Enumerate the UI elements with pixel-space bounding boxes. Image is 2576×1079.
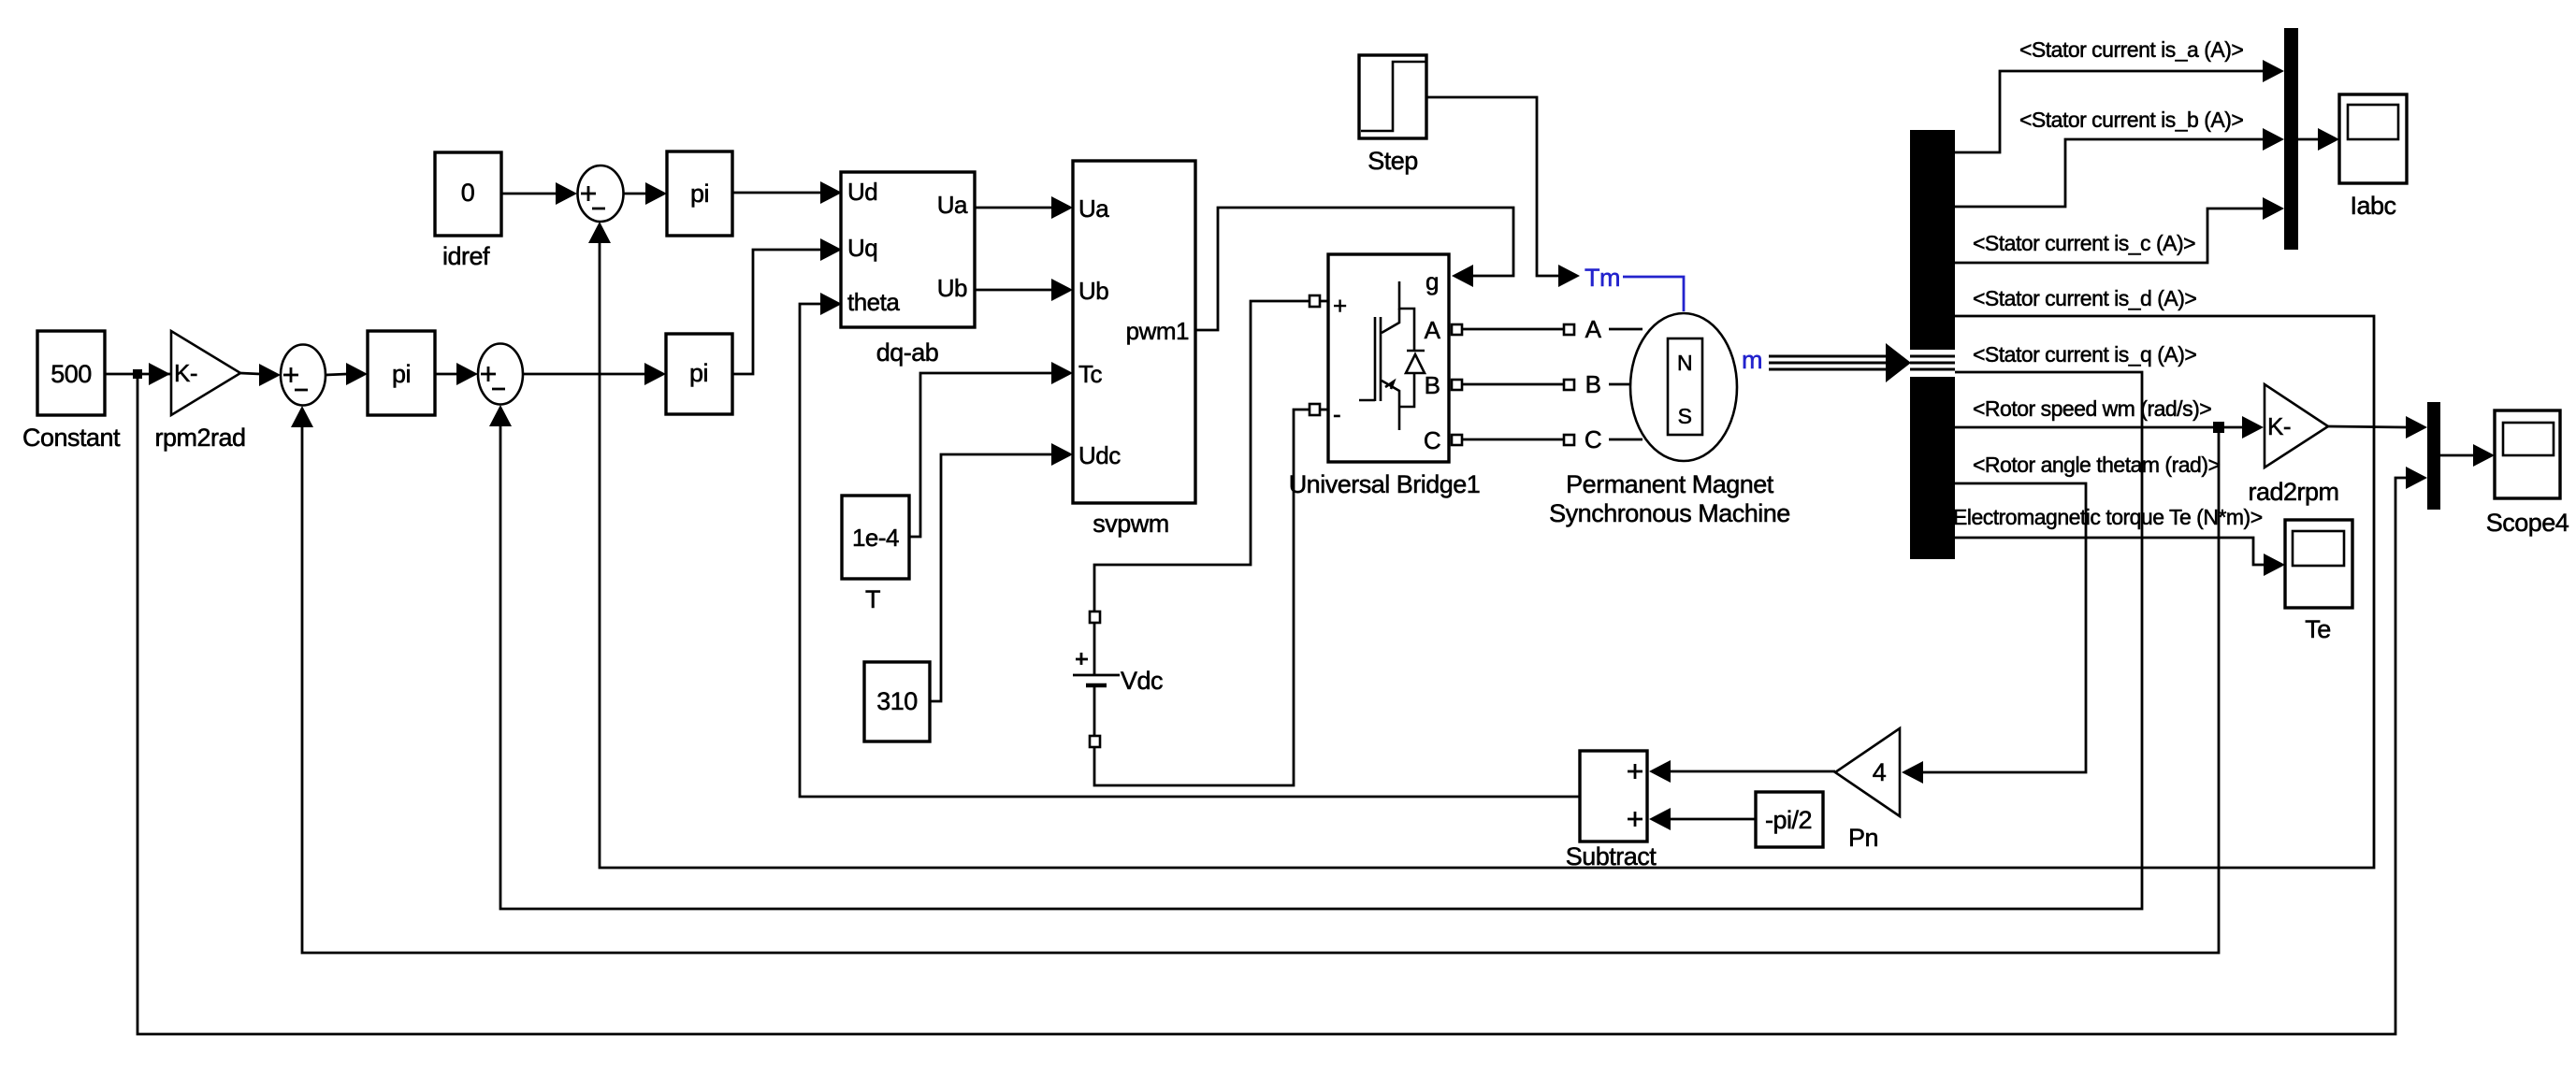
pi controller 1 (speed) [368, 331, 435, 415]
bridge plus input port [1310, 295, 1328, 307]
mux Iabc bar [2284, 28, 2298, 250]
svg-text:Step: Step [1368, 147, 1418, 175]
scope Scope4 [2486, 410, 2569, 537]
wire rad2rpm to scope4 mux [2328, 416, 2427, 439]
svg-text:Vdc: Vdc [1121, 667, 1163, 695]
svg-text:1e-4: 1e-4 [852, 524, 899, 552]
svg-text:pi: pi [689, 359, 708, 387]
constant block 500 [22, 331, 121, 452]
svg-text:C: C [1424, 426, 1440, 454]
wire svpwm pwm1 to bridge g [1195, 208, 1513, 330]
svg-text:S: S [1678, 404, 1692, 428]
gain rpm2rad [154, 331, 245, 452]
constant block idref 0 [435, 152, 501, 270]
svg-text:A: A [1425, 316, 1441, 344]
svg-text:Ua: Ua [937, 191, 968, 219]
svg-text:pi: pi [690, 180, 709, 208]
scope Iabc [2339, 94, 2407, 220]
svg-text:g: g [1425, 267, 1439, 295]
svg-text:T: T [865, 585, 880, 613]
svg-text:Synchronous Machine: Synchronous Machine [1549, 499, 1790, 527]
wire dq-ab Ua to svpwm Ua [974, 196, 1073, 219]
svg-text:<Rotor speed wm (rad/s)>: <Rotor speed wm (rad/s)> [1973, 396, 2211, 421]
bus selector bar [1910, 130, 1955, 559]
wire 1e-4 to svpwm Tc [909, 362, 1073, 537]
svg-text:C: C [1585, 425, 1601, 453]
wire Vdc minus to bridge minus [1094, 410, 1310, 785]
wire mux to Iabc scope [2298, 128, 2339, 151]
wire m bus to bus selector [1769, 343, 1911, 382]
svg-text:Constant: Constant [22, 424, 121, 452]
wire constant to gain [105, 363, 170, 385]
wire sum3 to pi controller 3 [623, 182, 667, 205]
wire speed reference to scope4 mux [137, 374, 2427, 1034]
svg-text:theta: theta [847, 288, 900, 316]
svg-text:B: B [1425, 371, 1440, 399]
svg-text:idref: idref [442, 242, 490, 270]
wire wm feedback to sum1 [291, 406, 2219, 953]
svg-text:K-: K- [174, 359, 197, 387]
wire is_d feedback to sum3 [588, 222, 2374, 868]
svg-text:<Rotor angle thetam (rad)>: <Rotor angle thetam (rad)> [1973, 453, 2220, 477]
pmsm phase labels and stubs [1585, 315, 1643, 453]
svg-text:Universal Bridge1: Universal Bridge1 [1289, 470, 1481, 498]
universal bridge block [1328, 254, 1449, 462]
wire dq-ab Ub to svpwm Ub [974, 279, 1073, 301]
wire is_q feedback to sum2 [489, 372, 2142, 909]
wire -pi/2 to Subtract input 2 [1649, 808, 1756, 830]
dc source Vdc [1073, 611, 1163, 747]
svg-text:Tm: Tm [1585, 264, 1620, 292]
sum junction S2 [478, 344, 523, 405]
bridge output port B [1452, 380, 1574, 390]
wire is_a to mux [1955, 60, 2284, 152]
constant block -pi/2 [1756, 792, 1823, 847]
mux scope4 bar [2427, 402, 2440, 510]
svg-text:Permanent Magnet: Permanent Magnet [1566, 470, 1774, 498]
subsystem svpwm [1073, 161, 1195, 538]
step block [1359, 55, 1426, 175]
svg-text:Ub: Ub [1078, 277, 1108, 305]
svg-text:N: N [1677, 351, 1692, 375]
wire sum2 to pi controller 2 [523, 363, 666, 385]
wire idref to sum3 [501, 182, 577, 205]
bridge output port A [1452, 324, 1574, 335]
svg-text:m: m [1742, 346, 1762, 374]
svg-text:Subtract: Subtract [1566, 842, 1657, 870]
svg-text:4: 4 [1873, 758, 1887, 786]
svg-text:Pn: Pn [1848, 824, 1878, 852]
svg-text:svpwm: svpwm [1093, 510, 1169, 538]
svg-text:-: - [1333, 400, 1340, 428]
svg-text:+: + [1333, 292, 1347, 320]
sum junction S1 [281, 345, 326, 406]
wire pi1 to sum2 [435, 363, 478, 385]
wire step to pmsm Tm [1426, 97, 1580, 287]
wire wm to rad2rpm with junction [1955, 416, 2264, 439]
pi controller 3 (id) [667, 151, 732, 236]
svg-text:rpm2rad: rpm2rad [154, 424, 245, 452]
svg-text:Te: Te [2305, 615, 2331, 643]
sum junction S3 (id loop) [578, 165, 624, 222]
svg-text:<Stator current is_d (A)>: <Stator current is_d (A)> [1973, 286, 2196, 310]
wire Te to scope Te [1955, 538, 2285, 576]
svg-text:K-: K- [2267, 412, 2291, 440]
bridge output port C [1452, 435, 1574, 445]
svg-text:A: A [1585, 315, 1602, 343]
svg-text:-pi/2: -pi/2 [1765, 806, 1812, 834]
svg-text:Ub: Ub [937, 274, 967, 302]
svg-text:rad2rpm: rad2rpm [2248, 478, 2338, 506]
svg-text:B: B [1585, 370, 1601, 398]
svg-text:Ua: Ua [1078, 194, 1109, 223]
svg-text:<Stator current is_b (A)>: <Stator current is_b (A)> [2019, 108, 2243, 132]
svg-text:<Stator current is_q (A)>: <Stator current is_q (A)> [1973, 342, 2196, 367]
universal bridge icon [1359, 281, 1425, 430]
svg-text:Ud: Ud [847, 178, 877, 206]
svg-text:<Stator current is_a (A)>: <Stator current is_a (A)> [2019, 37, 2243, 62]
sum block Subtract [1566, 751, 1657, 870]
gain rad2rpm [2248, 384, 2338, 506]
wire Vdc plus to bridge plus [1094, 301, 1310, 611]
svg-text:pwm1: pwm1 [1126, 317, 1189, 345]
scope Te [2285, 520, 2352, 643]
bus signal labels [1953, 37, 2263, 529]
svg-text:Udc: Udc [1078, 441, 1121, 469]
svg-text:Scope4: Scope4 [2486, 509, 2569, 537]
wire mux to scope4 [2440, 444, 2495, 467]
wire is_c to mux [1955, 197, 2284, 263]
wire gain to sum1 [240, 364, 281, 386]
svg-text:Iabc: Iabc [2350, 192, 2395, 220]
wire pi2 to Uq input [732, 238, 842, 374]
bridge minus input port [1310, 404, 1328, 415]
svg-text:dq-ab: dq-ab [876, 338, 939, 367]
svg-text:pi: pi [392, 360, 411, 388]
constant block T 1e-4 [842, 496, 909, 613]
wire thetam feedback to Pn [1902, 483, 2086, 784]
constant block 310 [864, 662, 930, 741]
pmsm machine body [1549, 313, 1790, 527]
pi controller 2 (iq) [666, 334, 732, 414]
svg-text:<Stator current is_c (A)>: <Stator current is_c (A)> [1973, 231, 2195, 255]
wire pi3 to Ud input [732, 181, 842, 204]
wire is_b to mux [1955, 128, 2284, 207]
gain Pn [1835, 728, 1900, 852]
wire Pn to Subtract input 1 [1649, 760, 1835, 783]
wire Tm blue connector [1623, 277, 1684, 311]
wire Subtract output to dq-ab theta [800, 293, 1580, 797]
wire 310 to svpwm Udc [930, 443, 1073, 701]
svg-text:Uq: Uq [847, 234, 877, 262]
svg-text:0: 0 [461, 179, 475, 207]
wire sum1 to pi controller 1 [326, 363, 368, 385]
svg-text:310: 310 [876, 687, 918, 715]
svg-text:Electromagnetic torque Te (N*m: Electromagnetic torque Te (N*m)> [1953, 505, 2263, 529]
svg-text:500: 500 [51, 360, 92, 388]
svg-text:Tc: Tc [1078, 360, 1103, 388]
subsystem dq-ab [841, 172, 975, 367]
